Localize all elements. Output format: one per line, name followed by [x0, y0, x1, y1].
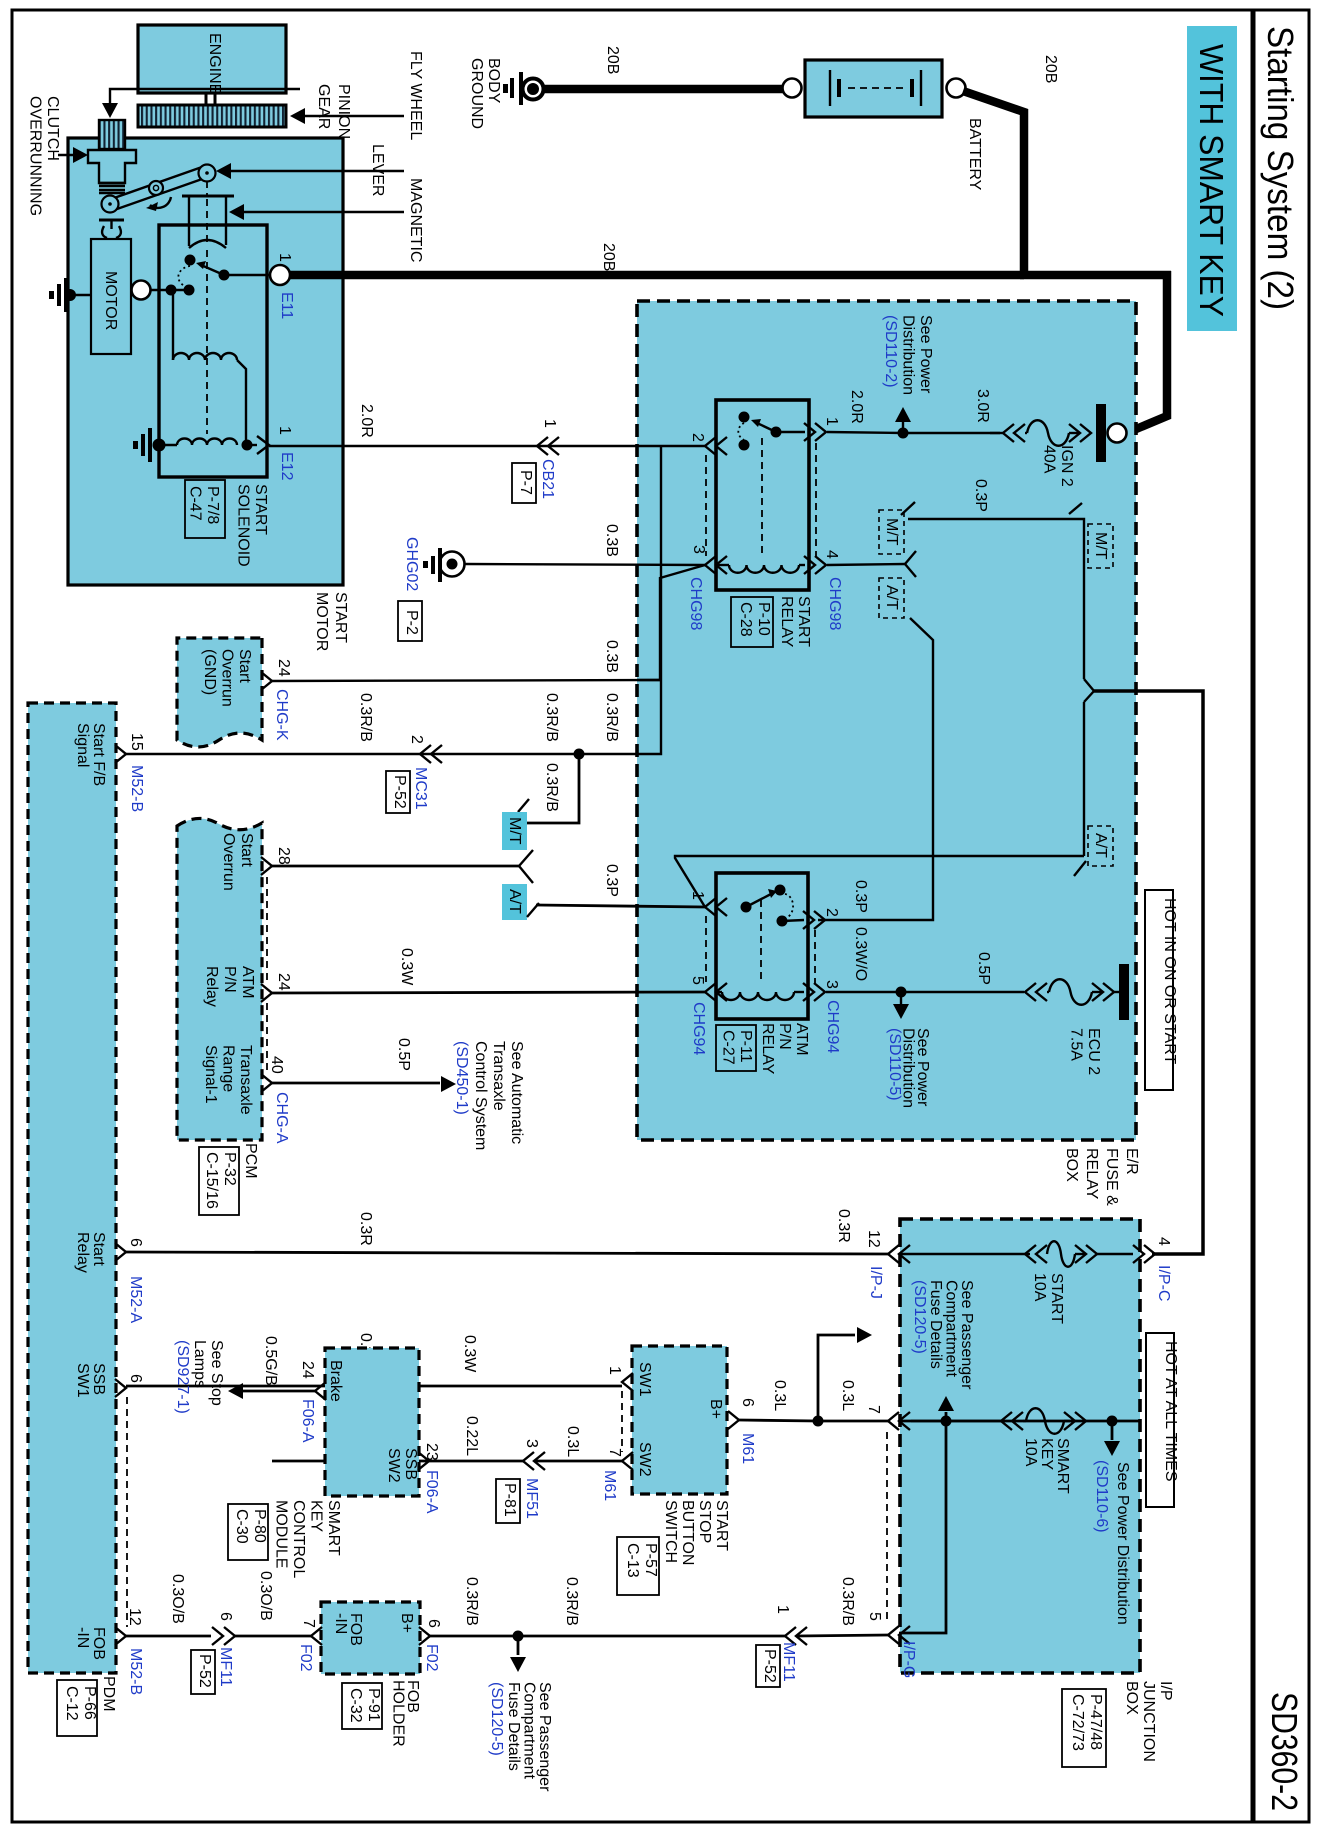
connector MC31: [420, 745, 431, 763]
IP internal dash: [886, 1432, 888, 1624]
arrow see automatic transaxle: [441, 1076, 456, 1092]
svg-text:GHG02: GHG02: [403, 537, 420, 591]
overrunning clutch body: [88, 150, 136, 183]
svg-text:6: 6: [127, 1374, 144, 1383]
solenoid pull coil: [177, 439, 237, 446]
svg-text:BODY: BODY: [485, 58, 502, 104]
plunger fork: [182, 195, 234, 198]
AT wire start slash: [527, 903, 539, 917]
svg-text:START: START: [1048, 1273, 1065, 1324]
module PCM box: [177, 818, 262, 1140]
option tag MT2: [1088, 524, 1113, 568]
svg-text:20B: 20B: [600, 243, 617, 271]
svg-text:M/T: M/T: [506, 817, 523, 845]
module FOB holder box: [321, 1602, 420, 1674]
svg-text:P-52: P-52: [761, 1649, 778, 1683]
svg-text:Fuse Details: Fuse Details: [505, 1682, 522, 1771]
svg-text:P-32: P-32: [221, 1152, 238, 1186]
svg-text:5: 5: [689, 976, 706, 985]
svg-text:P-52: P-52: [391, 775, 408, 809]
svg-text:SD360-2: SD360-2: [1264, 1692, 1305, 1811]
svg-text:Start F/B: Start F/B: [90, 723, 107, 786]
I/P junction box: [900, 1219, 1140, 1673]
svg-text:1: 1: [276, 426, 293, 435]
battery box: [805, 60, 942, 117]
wire 2.0R fuse to relay pin1: [827, 432, 903, 433]
E/R fuse relay box: [637, 301, 1136, 1140]
wire 0.5P pin40: [272, 1082, 440, 1085]
svg-text:0.3B: 0.3B: [603, 524, 620, 557]
svg-text:3: 3: [690, 545, 707, 554]
svg-text:2.0R: 2.0R: [848, 390, 865, 424]
svg-text:See Stop: See Stop: [208, 1340, 225, 1406]
svg-text:P-80: P-80: [251, 1509, 268, 1543]
svg-text:HOT IN ON OR START: HOT IN ON OR START: [1161, 898, 1178, 1064]
svg-text:Fuse Details: Fuse Details: [927, 1280, 944, 1369]
svg-text:0.3R: 0.3R: [835, 1209, 852, 1243]
wire 0.3O/B pdm: [126, 1635, 211, 1638]
svg-text:0.3R: 0.3R: [357, 1212, 374, 1246]
svg-text:0.3L: 0.3L: [839, 1380, 856, 1411]
svg-text:P-47/48: P-47/48: [1087, 1694, 1104, 1750]
PDM pin15 chevron: [115, 745, 126, 763]
svg-text:C-30: C-30: [233, 1509, 250, 1544]
svg-text:KEY: KEY: [308, 1500, 325, 1532]
MT lineA end slash: [1069, 503, 1082, 514]
svg-text:0.3R/B: 0.3R/B: [839, 1577, 856, 1626]
wire 0.3L sw2: [535, 1460, 622, 1463]
svg-text:Signal: Signal: [74, 723, 91, 767]
P-47/48 C-72/73 box: [1062, 1689, 1106, 1767]
motor ground: [64, 289, 76, 301]
svg-text:15: 15: [128, 733, 145, 751]
start relay pin3 chevrons: [705, 556, 716, 574]
svg-text:C-27: C-27: [720, 1030, 737, 1065]
svg-text:1: 1: [774, 1605, 791, 1614]
svg-text:7: 7: [865, 1405, 882, 1414]
svg-text:SOLENOID: SOLENOID: [235, 484, 252, 567]
svg-text:24: 24: [275, 659, 292, 677]
fuse IGN 2 40A: [990, 432, 1004, 434]
SKCM pin24 chevron: [315, 1382, 326, 1400]
wire AT drop: [818, 618, 933, 920]
pin28 fork ticks: [519, 850, 533, 866]
svg-text:20B: 20B: [604, 46, 621, 74]
svg-text:SMART: SMART: [325, 1500, 342, 1556]
svg-text:KEY: KEY: [1038, 1438, 1055, 1470]
wire 0.3L to pin7: [818, 1420, 888, 1423]
wire 2.0R E12 to relay: [269, 445, 705, 447]
svg-text:6: 6: [739, 1398, 756, 1407]
wire M/T feedback stub: [527, 754, 579, 823]
motor connector ring: [132, 281, 151, 300]
svg-text:40: 40: [268, 1056, 285, 1074]
svg-text:1: 1: [689, 891, 706, 900]
svg-text:C-12: C-12: [63, 1686, 80, 1721]
svg-text:P-66: P-66: [81, 1686, 98, 1720]
SSB pin1 chevron: [622, 1373, 633, 1391]
junction dot SD110-2: [898, 428, 909, 439]
svg-text:M61: M61: [601, 1470, 618, 1501]
start relay internal dashes: [706, 438, 816, 557]
connector MF11 pin1: [785, 1627, 796, 1645]
P-7/8 C-47 box: [185, 480, 225, 538]
svg-text:ECU 2: ECU 2: [1085, 1028, 1102, 1075]
svg-text:40A: 40A: [1041, 445, 1058, 474]
P-57 C-13 box: [617, 1537, 659, 1595]
ATM relay coil: [722, 992, 794, 1000]
svg-text:M52-B: M52-B: [128, 765, 145, 812]
svg-text:STOP: STOP: [696, 1500, 713, 1543]
body ground symbol: [523, 79, 544, 100]
svg-text:E11: E11: [278, 292, 295, 319]
wire smart key fuse line: [899, 1420, 1140, 1423]
svg-text:PDM: PDM: [100, 1676, 117, 1712]
svg-text:0.3R/B: 0.3R/B: [357, 693, 374, 742]
start relay pin1 chevrons: [804, 423, 815, 441]
svg-text:0.3R/B: 0.3R/B: [543, 763, 560, 812]
svg-text:SW2: SW2: [636, 1442, 653, 1477]
svg-text:0.3R/B: 0.3R/B: [543, 693, 560, 742]
P-11 C-27 box: [716, 1025, 756, 1071]
svg-text:Transaxle: Transaxle: [237, 1045, 254, 1115]
SSB internal dash: [621, 1391, 623, 1452]
start motor box: [68, 138, 343, 585]
wire start feed to IP: [1094, 691, 1203, 1254]
SKCM pin23 chevron: [418, 1452, 429, 1470]
svg-text:(GND): (GND): [201, 649, 218, 695]
connector MF11: [212, 1627, 223, 1645]
svg-text:Relay: Relay: [203, 966, 220, 1007]
svg-text:(SD120-5): (SD120-5): [911, 1280, 928, 1354]
svg-text:MOTOR: MOTOR: [102, 271, 119, 330]
battery cells: [829, 70, 831, 106]
svg-text:P-52: P-52: [196, 1654, 213, 1688]
motor-solenoid wire: [141, 289, 189, 291]
E11 connector ring: [270, 265, 290, 285]
svg-text:HOLDER: HOLDER: [390, 1680, 407, 1747]
svg-text:PCM: PCM: [242, 1143, 259, 1179]
relay CHG94 ATM P/N RELAY box: [716, 873, 808, 1019]
svg-text:RELAY: RELAY: [778, 596, 795, 648]
svg-text:4: 4: [823, 550, 840, 559]
svg-text:C-47: C-47: [187, 486, 204, 521]
ECU2 bus bar: [1119, 964, 1129, 1020]
IP pin12 chevrons: [888, 1245, 899, 1263]
arrow up see passenger ip: [945, 1412, 948, 1421]
svg-text:20B: 20B: [1042, 55, 1059, 83]
svg-text:Distribution: Distribution: [900, 315, 917, 395]
IP pin4 chevrons: [1133, 1245, 1144, 1263]
svg-text:Overrun: Overrun: [219, 649, 236, 707]
svg-text:(SD110-2): (SD110-2): [882, 315, 899, 388]
wire 0.3R/B fob: [430, 1635, 518, 1638]
svg-text:HOT AT ALL TIMES: HOT AT ALL TIMES: [1162, 1341, 1179, 1482]
wire 0.3O/B fob: [235, 1635, 311, 1638]
svg-text:0.3L: 0.3L: [771, 1380, 788, 1411]
option split V1 ticks: [905, 551, 916, 564]
svg-text:C-15/16: C-15/16: [203, 1152, 220, 1209]
ATM relay pin3 chevrons: [803, 983, 814, 1001]
E12 chevron pin 1: [257, 436, 269, 454]
module CHG-K start overrun gnd: [177, 638, 262, 747]
merge chevron: [1084, 679, 1094, 856]
svg-text:RELAY: RELAY: [1083, 1148, 1100, 1200]
SSB pin6 chevron: [728, 1411, 739, 1429]
wire 0.5P: [901, 991, 1024, 993]
ATM relay internal dashes: [706, 900, 815, 983]
connector CB21: [537, 437, 548, 455]
svg-text:1: 1: [606, 1366, 623, 1375]
PDM pin12 chevron: [115, 1627, 126, 1645]
CHG-K pin24 chevron: [261, 672, 272, 690]
svg-text:P-10: P-10: [755, 602, 772, 636]
svg-text:M/T: M/T: [883, 518, 900, 546]
connector MF51: [523, 1452, 534, 1470]
svg-text:CB21: CB21: [539, 459, 556, 499]
wire 0.3R start relay: [126, 1252, 888, 1254]
svg-text:0.3W/O: 0.3W/O: [852, 927, 869, 981]
ATM relay pin5 chevrons: [705, 983, 716, 1001]
svg-text:12: 12: [865, 1230, 882, 1248]
svg-text:P-7: P-7: [517, 470, 534, 495]
engine-flywheel link: [205, 93, 208, 105]
svg-text:M61: M61: [739, 1433, 756, 1464]
wire MT line A: [908, 519, 1084, 679]
wire IPG branch: [899, 1421, 946, 1633]
wire 0.3B to CHG-K: [272, 680, 660, 681]
svg-text:SWITCH: SWITCH: [662, 1500, 679, 1563]
svg-text:CHG98: CHG98: [687, 577, 704, 630]
fly wheel arrow: [298, 115, 404, 117]
svg-text:See Power: See Power: [917, 315, 934, 394]
svg-text:MC31: MC31: [412, 767, 429, 810]
svg-text:-IN: -IN: [74, 1627, 91, 1648]
svg-text:FUSE &: FUSE &: [1103, 1148, 1120, 1206]
svg-text:0.3O/B: 0.3O/B: [169, 1574, 186, 1624]
IGN2 bus bar: [1096, 404, 1106, 462]
svg-text:I/P: I/P: [1157, 1681, 1174, 1701]
option tag AT2: [1088, 826, 1113, 866]
svg-text:12: 12: [126, 1608, 143, 1626]
svg-text:0.3W: 0.3W: [398, 948, 415, 986]
wire 0.22L: [272, 1460, 523, 1463]
svg-text:F06-A: F06-A: [299, 1399, 316, 1443]
svg-text:START: START: [713, 1500, 730, 1551]
wire 0.3P pin4: [827, 564, 905, 565]
svg-text:7.5A: 7.5A: [1068, 1028, 1085, 1061]
svg-text:Brake: Brake: [327, 1360, 344, 1402]
svg-text:0.5G/B: 0.5G/B: [262, 1336, 279, 1386]
svg-text:GEAR: GEAR: [315, 84, 332, 129]
svg-text:OVERRUNNING: OVERRUNNING: [27, 96, 44, 216]
svg-text:GROUND: GROUND: [468, 58, 485, 129]
svg-text:(SD927-1): (SD927-1): [174, 1340, 191, 1414]
svg-text:CHG94: CHG94: [824, 1000, 841, 1053]
svg-text:See Passenger: See Passenger: [536, 1682, 553, 1792]
solenoid hold coil: [172, 290, 174, 360]
svg-text:28: 28: [275, 847, 292, 865]
MT stub slash: [518, 799, 529, 812]
arrow up sd120-5 left: [818, 1335, 855, 1421]
svg-text:Compartment: Compartment: [943, 1280, 960, 1377]
solenoid ground: [153, 439, 166, 452]
wire 0.3R/B feedback: [579, 447, 661, 754]
wire 0.3R/B to MF11b: [518, 1635, 785, 1638]
svg-text:F02: F02: [423, 1644, 440, 1672]
svg-text:10A: 10A: [1031, 1273, 1048, 1302]
svg-text:Start: Start: [90, 1232, 107, 1266]
svg-text:CHG94: CHG94: [690, 1002, 707, 1055]
wire 0.3R/B to IPG: [797, 1635, 888, 1636]
svg-text:Compartment: Compartment: [521, 1682, 538, 1779]
svg-text:BOX: BOX: [1063, 1148, 1080, 1182]
svg-text:SSB: SSB: [90, 1363, 107, 1395]
junction dot MC31 branch: [574, 749, 585, 760]
svg-text:M52-B: M52-B: [127, 1648, 144, 1695]
svg-text:1: 1: [276, 253, 293, 262]
svg-text:1: 1: [823, 417, 840, 426]
wire 0.3B GHG02: [465, 564, 705, 565]
start relay coil: [729, 565, 799, 573]
start solenoid box: [159, 225, 267, 477]
svg-text:2: 2: [408, 735, 425, 744]
P-91 C-32 box: [342, 1683, 382, 1729]
svg-text:2: 2: [823, 908, 840, 917]
IP pin7 chevrons: [888, 1412, 899, 1430]
ground GHG02: [440, 552, 465, 577]
MT lineA start slash: [901, 502, 915, 515]
svg-text:0.3R/B: 0.3R/B: [603, 693, 620, 742]
svg-text:See Automatic: See Automatic: [508, 1041, 525, 1144]
svg-text:6: 6: [217, 1612, 234, 1621]
PDM pin6 chevron: [115, 1243, 126, 1261]
svg-text:0.22L: 0.22L: [463, 1416, 480, 1456]
svg-text:START: START: [332, 592, 349, 643]
wire 20B battery to fuse: [963, 91, 1171, 432]
svg-text:RELAY: RELAY: [759, 1023, 776, 1075]
svg-text:Signal-1: Signal-1: [202, 1045, 219, 1104]
svg-text:F06-A: F06-A: [423, 1470, 440, 1514]
svg-text:Lamps: Lamps: [191, 1340, 208, 1388]
svg-text:SW1: SW1: [74, 1363, 91, 1398]
svg-text:Control System: Control System: [472, 1041, 489, 1150]
svg-text:CONTROL: CONTROL: [290, 1500, 307, 1578]
svg-text:C-28: C-28: [737, 602, 754, 637]
svg-text:Transaxle: Transaxle: [490, 1041, 507, 1111]
junction dot SD110-6: [1107, 1416, 1118, 1427]
svg-text:FOB: FOB: [90, 1627, 107, 1660]
svg-text:(SD110-5): (SD110-5): [886, 1028, 903, 1101]
svg-text:See Passenger: See Passenger: [958, 1280, 975, 1390]
svg-text:1: 1: [541, 419, 558, 428]
PCM internal dashes: [266, 877, 268, 1073]
svg-text:P/N: P/N: [776, 1023, 793, 1050]
svg-text:3: 3: [823, 980, 840, 989]
svg-text:2.0R: 2.0R: [358, 404, 375, 438]
IGN2 connector ring: [1108, 424, 1127, 443]
P-80 C-30 box: [228, 1504, 268, 1560]
svg-text:MF11: MF11: [217, 1647, 234, 1687]
svg-text:0.5P: 0.5P: [395, 1038, 412, 1071]
ATM relay contacts: [741, 902, 752, 913]
svg-text:MF51: MF51: [523, 1478, 540, 1519]
svg-text:ENGINE: ENGINE: [206, 33, 223, 94]
svg-text:M/T: M/T: [1092, 532, 1109, 560]
arrow see power dist SD110-6: [1111, 1421, 1114, 1440]
wire 0.3P AT to ATM pin1: [536, 905, 705, 907]
plunger axis dashed: [206, 181, 208, 434]
svg-text:M52-A: M52-A: [127, 1276, 144, 1323]
wire 0.3W pin24: [272, 992, 705, 993]
svg-text:0.3P: 0.3P: [852, 880, 869, 913]
magnetic lever arrow1: [224, 170, 404, 172]
svg-text:MOTOR: MOTOR: [313, 592, 330, 651]
svg-text:SW1: SW1: [636, 1362, 653, 1397]
magnetic lever linkage: [114, 167, 202, 198]
svg-text:(SD450-1): (SD450-1): [453, 1041, 470, 1115]
fuse SMART KEY 10A: [1001, 1412, 1012, 1430]
svg-text:MF11: MF11: [780, 1642, 797, 1682]
svg-text:Start: Start: [236, 649, 253, 683]
option tag MT1: [879, 510, 904, 554]
FOB pin6 chevron: [419, 1627, 430, 1645]
magnetic lever arrow2: [237, 211, 404, 213]
svg-text:0.3P: 0.3P: [603, 864, 620, 897]
junction dot sd120-5 up: [941, 1416, 952, 1427]
svg-text:Starting System (2): Starting System (2): [1260, 26, 1301, 310]
svg-text:SMART: SMART: [1054, 1438, 1071, 1494]
module SKCM box: [325, 1348, 419, 1496]
svg-text:0.3R/B: 0.3R/B: [563, 1577, 580, 1626]
motor box: [91, 239, 131, 354]
overrunning clutch arrow: [58, 154, 80, 156]
option tag AT highlight: [502, 884, 527, 920]
wire 20B to E11: [289, 271, 1024, 280]
wire 0.3W/O pin3 out: [826, 991, 901, 993]
svg-text:JUNCTION: JUNCTION: [1140, 1681, 1157, 1762]
svg-text:0.3R/B: 0.3R/B: [463, 1577, 480, 1626]
svg-text:7: 7: [300, 1619, 317, 1628]
svg-text:P-2: P-2: [403, 610, 420, 635]
title separator line: [1251, 10, 1256, 1822]
svg-text:A/T: A/T: [506, 889, 523, 914]
svg-text:3.0R: 3.0R: [974, 389, 991, 423]
svg-text:MAGNETIC: MAGNETIC: [407, 178, 424, 262]
start relay pin2 chevrons: [705, 437, 716, 455]
svg-text:10A: 10A: [1022, 1438, 1039, 1467]
svg-text:24: 24: [299, 1361, 316, 1379]
svg-text:BATTERY: BATTERY: [966, 118, 983, 191]
svg-text:0.5P: 0.5P: [975, 952, 992, 985]
svg-text:C-72/73: C-72/73: [1069, 1694, 1086, 1751]
P-32 C-15/16 box: [199, 1147, 239, 1215]
engine box: [138, 25, 286, 93]
FOB pin7 chevron: [311, 1627, 322, 1645]
PDM pin6b chevron: [115, 1379, 126, 1397]
svg-text:CLUTCH: CLUTCH: [44, 96, 61, 161]
svg-text:B+: B+: [707, 1399, 724, 1419]
pinion gear arrow: [110, 89, 300, 108]
arrow see power distribution SD110-5: [900, 992, 902, 1004]
svg-text:I/P-J: I/P-J: [867, 1266, 884, 1299]
wire 0.3B lower fork: [637, 565, 705, 680]
module SSB switch box: [632, 1346, 727, 1494]
arrow see stop lamps: [228, 1383, 243, 1399]
flywheel ring gear: [138, 105, 286, 127]
svg-text:0.3B: 0.3B: [603, 640, 620, 673]
svg-text:B+: B+: [398, 1613, 415, 1633]
